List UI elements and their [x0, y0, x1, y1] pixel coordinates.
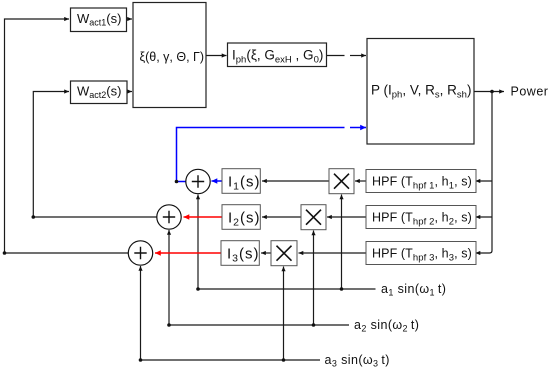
block I2(s)	[222, 205, 261, 230]
node dot S2-Wact2 corner	[32, 215, 36, 219]
wire a3 dither line	[141, 266, 321, 360]
block Iph(xi,GexH,G0)	[228, 43, 327, 67]
node dot a1 left corner	[196, 287, 200, 291]
wire P output to Power	[474, 91, 504, 93]
wire HPF2 to X2	[327, 216, 366, 218]
node dot a3 left corner	[139, 358, 143, 362]
summer S1	[186, 169, 210, 193]
wire a2 dither line	[169, 230, 349, 325]
wire feedback from summer S2 to Wact2 input	[33, 92, 157, 218]
svg-text:ξ(θ, γ, Θ, Γ): ξ(θ, γ, Θ, Γ)	[140, 50, 205, 64]
node dot P output junction	[490, 90, 494, 94]
block Wact1	[71, 8, 127, 32]
wire I3 to S3 (red)	[155, 252, 221, 254]
summer S2	[157, 205, 181, 229]
wire Wact2 to xi block	[127, 91, 132, 93]
multiplier X3	[271, 241, 297, 266]
block P(Iph,V,Rs,Rsh)	[367, 39, 474, 145]
wire feedback from summer S3 to Wact1 input	[5, 19, 129, 253]
block HPF3	[366, 242, 476, 265]
wire I1 to S1 (blue)	[212, 180, 223, 182]
wire X2 to I2	[262, 216, 301, 218]
wire X1 to I1	[262, 180, 329, 182]
node dot S1 output corner	[175, 180, 179, 184]
block I1(s)	[222, 169, 261, 194]
wire X3 to I3	[261, 252, 271, 254]
wire a1 dither line	[198, 195, 376, 290]
wire branch to HPF2	[476, 216, 493, 218]
node dot S3-Wact1 corner	[3, 251, 7, 255]
wire branch to HPF1	[476, 180, 493, 182]
block HPF1	[366, 170, 476, 193]
wire Iph to P block (broken)	[327, 55, 345, 57]
block xi(theta,gamma,Theta,Gamma)	[133, 3, 206, 108]
multiplier X1	[329, 169, 354, 194]
block Wact2	[71, 81, 128, 104]
node dot a2 left corner	[167, 323, 171, 327]
node dot a3-X3 junction	[282, 358, 286, 362]
node dot a1-X1 junction	[340, 287, 344, 291]
svg-text:I1(s): I1(s)	[228, 174, 261, 193]
wire Wact1 to xi block	[127, 18, 133, 20]
block I3(s)	[221, 241, 260, 266]
summer S3	[128, 241, 152, 265]
wire HPF1 to X1	[355, 180, 366, 182]
block HPF2	[366, 206, 476, 229]
wire S1 output to P block (blue, broken)	[177, 128, 345, 182]
node dot a2-X2 junction	[312, 323, 316, 327]
multiplier X2	[301, 205, 326, 230]
wire HPF3 to X3	[299, 252, 367, 254]
svg-text:I3(s): I3(s)	[227, 246, 260, 265]
wire xi to Iph block	[206, 55, 227, 57]
wire feedback vertical to HPF3	[476, 92, 493, 254]
wire I2 to S2 (red)	[184, 216, 223, 218]
svg-text:Power: Power	[511, 85, 549, 99]
svg-text:I2(s): I2(s)	[228, 210, 261, 229]
